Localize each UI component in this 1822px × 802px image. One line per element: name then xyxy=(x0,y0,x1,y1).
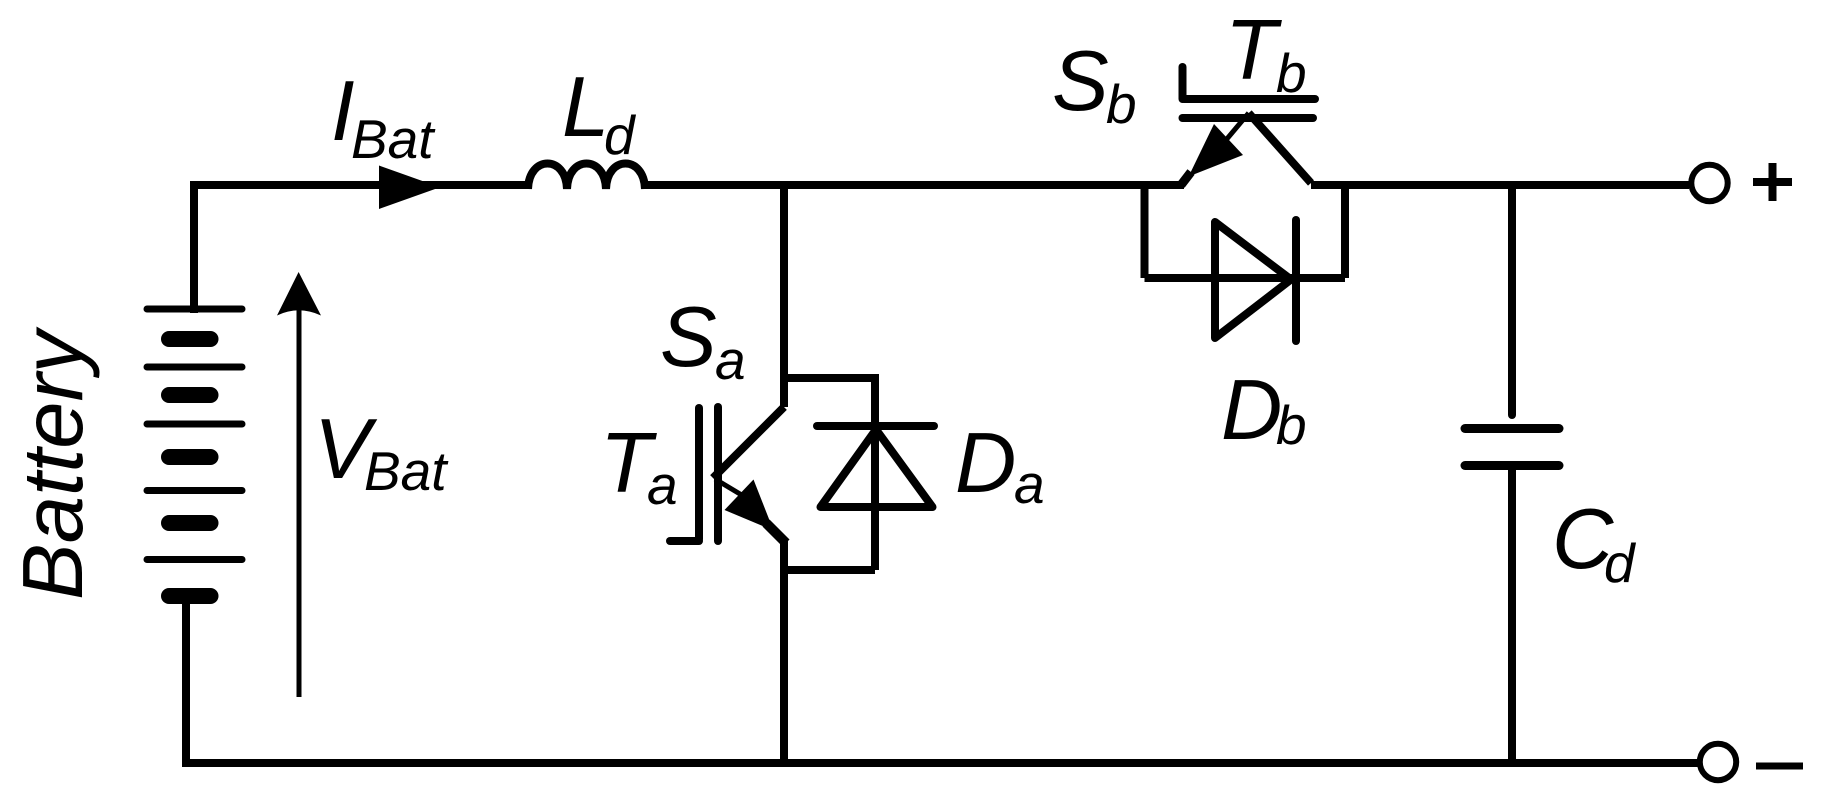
transistor Tb emitter diagonal xyxy=(1226,113,1249,140)
label VBat xyxy=(314,402,449,502)
battery short plate 3 xyxy=(169,449,211,465)
voltage arrow VBat shaft xyxy=(297,308,302,697)
diode Db cathode bar xyxy=(1292,220,1300,341)
diode Db box bottom wire xyxy=(1145,274,1346,282)
svg-text:S: S xyxy=(1052,34,1109,129)
battery short plate 4 xyxy=(169,515,211,531)
wire Sb collector to + terminal xyxy=(1311,181,1689,189)
transistor Ta emitter arrowhead xyxy=(725,480,774,531)
label Ta xyxy=(600,416,678,516)
diode Da anode/cathode vertical wire xyxy=(871,374,879,570)
svg-text:a: a xyxy=(647,454,678,516)
output terminal + circle xyxy=(1691,165,1727,201)
diode Db box right wire xyxy=(1341,181,1349,278)
wire capacitor Cd down to bottom rail xyxy=(1508,466,1516,764)
capacitor Cd bottom plate xyxy=(1465,461,1559,470)
label Cd xyxy=(1552,492,1637,594)
capacitor Cd top plate xyxy=(1465,424,1559,433)
output terminal - circle xyxy=(1700,744,1736,780)
diode Db triangle xyxy=(1215,222,1291,338)
svg-text:b: b xyxy=(1276,42,1307,104)
label IBat xyxy=(331,64,436,170)
diode Db box left wire xyxy=(1141,181,1149,278)
transistor Ta collector diagonal xyxy=(713,407,784,478)
diode Da cathode bar xyxy=(817,422,934,430)
current arrow IBat on top wire xyxy=(379,166,440,210)
wire top rail down to capacitor Cd xyxy=(1508,185,1516,415)
wire from Ld to node A xyxy=(645,181,786,189)
diode Da triangle xyxy=(821,430,933,508)
svg-text:Bat: Bat xyxy=(351,108,436,170)
wire node A to Sb emitter xyxy=(782,181,1184,189)
transistor Tb emitter arrowhead xyxy=(1189,124,1243,177)
battery long plate 5 xyxy=(147,556,242,563)
plus sign xyxy=(1753,163,1792,201)
svg-text:S: S xyxy=(660,290,717,385)
battery long plate 1 xyxy=(147,306,242,313)
svg-text:a: a xyxy=(1014,453,1045,515)
battery short plate 5 xyxy=(169,588,211,604)
transistor Tb collector diagonal xyxy=(1249,113,1311,183)
label Ld xyxy=(562,60,637,166)
transistor Tb gate bar xyxy=(1184,95,1315,103)
svg-text:b: b xyxy=(1106,73,1137,135)
svg-text:a: a xyxy=(715,329,746,391)
transistor Tb channel bar xyxy=(1183,114,1314,122)
label Sb xyxy=(1052,34,1137,135)
svg-text:D: D xyxy=(955,416,1016,511)
bottom rail wire xyxy=(186,759,1698,767)
svg-text:d: d xyxy=(1604,532,1637,594)
wire Sa emitter down to bottom rail xyxy=(780,539,788,763)
diode Da box bottom wire xyxy=(780,566,875,574)
wire top-left corner from battery to top rail xyxy=(194,185,530,313)
svg-text:d: d xyxy=(604,104,637,166)
minus sign xyxy=(1756,763,1803,770)
transistor Tb gate stub xyxy=(1179,67,1187,99)
svg-text:T: T xyxy=(1225,3,1282,98)
battery long plate 4 xyxy=(147,487,242,494)
battery long plate 3 xyxy=(147,421,242,428)
wire battery negative stub down to bottom rail xyxy=(182,600,190,767)
transistor Ta gate bar xyxy=(695,408,703,539)
svg-text:Bat: Bat xyxy=(364,440,449,502)
transistor Ta emitter tail to wire xyxy=(766,523,786,543)
label Tb xyxy=(1225,3,1307,104)
svg-text:D: D xyxy=(1221,363,1282,458)
label Db xyxy=(1221,363,1307,458)
label Da xyxy=(955,416,1045,515)
transistor Ta emitter diagonal xyxy=(715,479,750,500)
battery short plate 1 xyxy=(169,331,211,347)
diode Da box top wire xyxy=(780,374,875,382)
svg-text:b: b xyxy=(1276,394,1307,456)
transistor Ta channel bar xyxy=(714,407,722,541)
transistor Ta gate lead xyxy=(670,537,699,545)
wire node A down to Sa collector xyxy=(780,181,788,407)
svg-text:Battery: Battery xyxy=(6,326,101,600)
svg-text:L: L xyxy=(562,60,609,155)
inductor Ld xyxy=(528,164,645,190)
label Sa xyxy=(660,290,746,391)
battery long plate 2 xyxy=(147,364,242,371)
transistor Tb emitter tail to wire xyxy=(1181,172,1191,185)
battery short plate 2 xyxy=(169,387,211,403)
voltage arrow VBat head xyxy=(277,272,321,316)
